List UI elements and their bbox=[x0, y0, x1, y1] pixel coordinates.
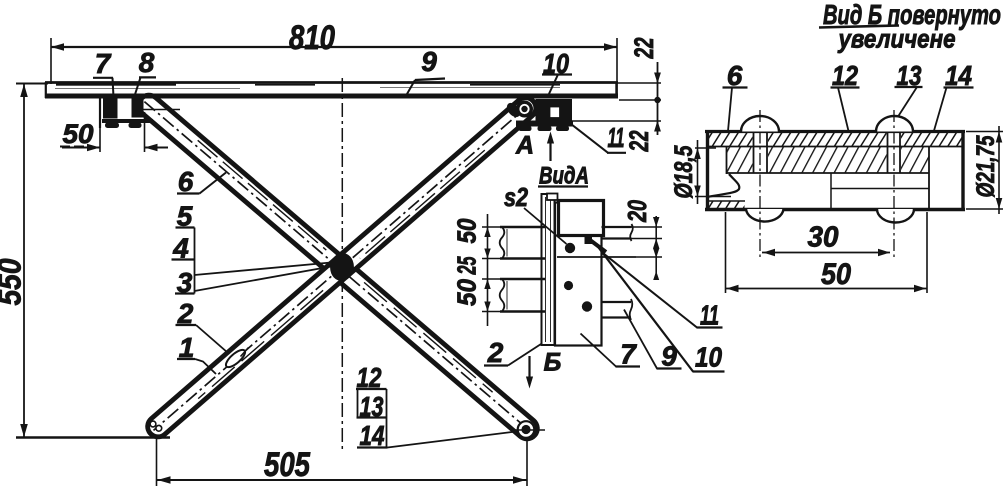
svg-text:14: 14 bbox=[945, 60, 972, 91]
svg-text:11: 11 bbox=[700, 300, 719, 331]
svg-text:6: 6 bbox=[727, 60, 743, 91]
svg-text:Б: Б bbox=[544, 349, 562, 377]
svg-text:12: 12 bbox=[832, 60, 858, 91]
svg-text:22: 22 bbox=[624, 131, 654, 153]
svg-text:810: 810 bbox=[289, 19, 335, 57]
svg-text:2: 2 bbox=[487, 337, 504, 368]
svg-text:7: 7 bbox=[95, 48, 112, 79]
svg-text:Ø18,5: Ø18,5 bbox=[670, 145, 698, 199]
svg-text:505: 505 bbox=[264, 446, 311, 484]
svg-text:20: 20 bbox=[622, 200, 652, 223]
svg-text:11: 11 bbox=[608, 122, 625, 153]
svg-text:9: 9 bbox=[421, 46, 437, 77]
svg-text:25: 25 bbox=[452, 256, 482, 275]
svg-text:30: 30 bbox=[808, 222, 839, 254]
svg-text:9: 9 bbox=[661, 341, 677, 372]
svg-text:увеличене: увеличене bbox=[837, 24, 956, 54]
svg-text:50: 50 bbox=[821, 258, 851, 291]
svg-text:8: 8 bbox=[139, 47, 155, 78]
svg-text:50: 50 bbox=[452, 278, 482, 306]
svg-text:22: 22 bbox=[629, 38, 659, 60]
svg-text:7: 7 bbox=[620, 339, 637, 370]
svg-text:14: 14 bbox=[360, 420, 385, 451]
svg-text:10: 10 bbox=[695, 342, 722, 373]
svg-text:50: 50 bbox=[452, 218, 482, 243]
svg-text:А: А bbox=[515, 132, 534, 160]
svg-text:550: 550 bbox=[0, 258, 28, 305]
svg-text:6: 6 bbox=[178, 166, 194, 197]
svg-text:Ø21,75: Ø21,75 bbox=[972, 135, 1000, 198]
